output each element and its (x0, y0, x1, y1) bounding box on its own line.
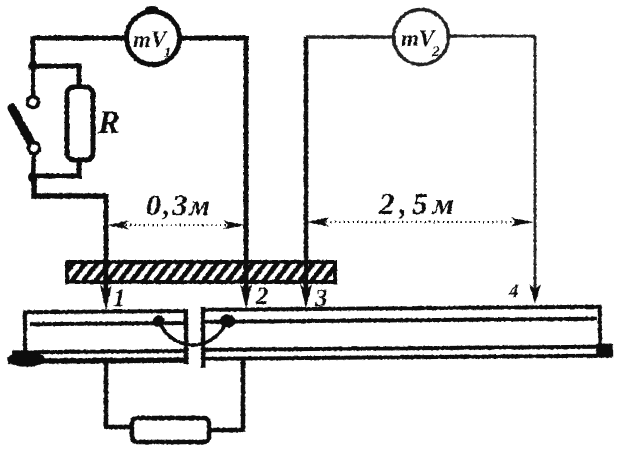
wire: resistor bottom to junction (33, 160, 79, 176)
right rail head top line (202, 307, 601, 310)
svg-text:R: R (97, 105, 120, 141)
shunt resistor box (132, 418, 209, 442)
node: junction bottom of switch/resistor (28, 172, 38, 182)
right rail end cap (598, 306, 602, 348)
dimension 0,3m right arrowhead (223, 221, 245, 230)
left rail foot top line (12, 351, 187, 352)
svg-text:0,3м: 0,3м (146, 189, 212, 222)
resistor R (67, 87, 93, 160)
wire: switch bottom to junction (33, 153, 34, 178)
svg-text:2: 2 (255, 283, 269, 310)
dimension 2,5m right arrowhead (511, 218, 533, 227)
node: junction top of switch/resistor (28, 61, 38, 71)
wire: junction to resistor top (33, 66, 79, 88)
svg-text:2,5м: 2,5м (378, 186, 459, 221)
bond weld dot right (219, 315, 235, 328)
wire: probe-1 vertical (104, 194, 109, 298)
svg-text:1: 1 (164, 45, 172, 61)
dimension 0,3m left arrowhead (107, 221, 129, 230)
wire: left horizontal to shunt (104, 425, 134, 430)
probe 1 arrowhead (100, 285, 112, 310)
wire: probe-3 vertical from mV2 (304, 37, 309, 299)
left rail head bottom line (30, 323, 187, 324)
right rail foot bottom line (202, 356, 612, 359)
left rail joint end cap (184, 309, 189, 364)
wire: mV2 right horizontal (448, 35, 535, 38)
wire: junction down and right to probe 1 (34, 176, 106, 196)
node: right wire at rail foot (240, 360, 246, 366)
svg-text:mV: mV (133, 27, 168, 52)
wire: rail to shunt left vertical (104, 362, 109, 427)
right rail head bottom line (202, 319, 597, 322)
svg-text:4: 4 (508, 281, 519, 302)
wire: probe-4 vertical (534, 36, 537, 294)
millivoltmeter mV2 (394, 10, 449, 65)
wire: shunt to right vertical (209, 428, 243, 433)
left rail head top line (24, 311, 187, 312)
rail (side view, slightly tilted) (7, 304, 613, 370)
svg-text:2: 2 (431, 44, 440, 60)
right rail foot end blob (596, 344, 613, 357)
probe 4 arrowhead (529, 284, 541, 304)
dimension 0,3m dotted line (112, 224, 240, 226)
right rail foot top line (202, 347, 600, 350)
wire: right vertical to rail (241, 363, 246, 432)
probe 3 arrowhead (300, 284, 312, 309)
left rail foot end blob (7, 352, 45, 367)
probe 2 arrowhead (240, 284, 252, 309)
wire: mV1 top-left horizontal (33, 36, 126, 41)
left rail end cap (23, 311, 27, 354)
node: left wire at rail foot (103, 359, 109, 365)
dimension 2,5m left arrowhead (307, 218, 329, 227)
wire: junction to switch top terminal (31, 66, 35, 96)
dimension 2,5m dotted line (312, 221, 528, 223)
switch S (knife switch, open) (12, 97, 40, 154)
bond weld dot left (153, 316, 165, 327)
left rail foot bottom line (8, 360, 187, 361)
rail bond jumper arc (159, 321, 227, 346)
svg-text:mV: mV (401, 26, 436, 51)
wire: mV2 top-left horizontal (306, 35, 394, 39)
wire: mV1 left vertical (31, 36, 36, 66)
wire: probe-2 vertical from mV1 (244, 36, 249, 298)
hatched contact bar (67, 262, 335, 282)
right rail joint end cap (201, 307, 206, 368)
millivoltmeter mV1 (127, 6, 180, 65)
svg-text:1: 1 (113, 285, 126, 312)
wire: mV1 right horizontal (180, 36, 246, 41)
